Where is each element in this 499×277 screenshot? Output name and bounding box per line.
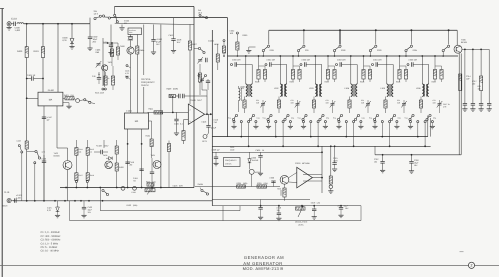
vertical rail x160.9 [160, 25, 162, 188]
capacitor C404 between dividers [27, 78, 31, 80]
small mark near page number [460, 251, 464, 253]
wire S403 to oscillator column [91, 102, 95, 105]
transistor T404 [151, 147, 153, 159]
feedback box line y210.6 [100, 210, 240, 212]
capacitor on x489.2 [487, 104, 491, 106]
svg-text:C415: C415 [174, 123, 180, 126]
svg-text:C425: C425 [256, 149, 262, 152]
svg-text:10R: 10R [230, 32, 234, 35]
resistor R407 [189, 25, 191, 42]
svg-text:FREQUENCY: FREQUENCY [141, 81, 155, 84]
stage L306 drops to buses [417, 123, 419, 137]
svg-text:T401: T401 [108, 61, 112, 64]
capacitor C405c [206, 58, 208, 62]
svg-text:SW2B: SW2B [198, 183, 204, 186]
stage L303 base resistor [313, 97, 315, 101]
wire U400 bottom pin A down [43, 106, 45, 201]
stage L302 wafer switch contacts [267, 114, 272, 120]
switch S302A [333, 45, 341, 52]
svg-text:R300: R300 [255, 81, 259, 84]
svg-text:C410a: C410a [208, 40, 215, 43]
lamp LP400 [74, 98, 76, 99]
vertical rail x330.8 [330, 146, 332, 176]
wire y154.8 left corner [374, 146, 376, 155]
modulation bus wire y205.7 [212, 205, 361, 207]
stage L306 base resistor [420, 97, 422, 101]
wire T402 collector up [67, 148, 69, 161]
jack circle J2 on audio bus [133, 186, 137, 190]
svg-text:30R: 30R [291, 101, 295, 104]
wire R400 column down [26, 58, 28, 142]
stage L302 contact grounds [268, 123, 270, 126]
capacitor C307 to ground [382, 155, 384, 162]
svg-text:C6: 16 - 40 MHz: C6: 16 - 40 MHz [41, 250, 60, 253]
capacitor C405b [207, 79, 209, 81]
thick drop at x340 [339, 30, 341, 44]
resistor R415 [87, 140, 89, 148]
svg-text:C428: C428 [131, 191, 135, 194]
wire column x104 down [103, 140, 105, 148]
svg-text:C329 1μF: C329 1μF [212, 149, 221, 152]
svg-text:R102: R102 [127, 204, 132, 207]
wire T404 to rail [160, 164, 162, 166]
svg-text:R305: R305 [237, 182, 242, 185]
svg-text:R302: R302 [325, 81, 329, 84]
resistor R421 at U400 right [63, 97, 65, 99]
drop x303.9 [303, 30, 305, 44]
IF stage transformer L301 [246, 82, 252, 97]
svg-text:C305 10R: C305 10R [409, 59, 418, 62]
transistor T400 [127, 47, 134, 54]
svg-text:2: 2 [471, 264, 473, 268]
stage L301 trimmer capacitor [260, 101, 266, 108]
svg-text:10k: 10k [374, 161, 377, 164]
capacitor C419 on pin C [125, 162, 129, 164]
transistor T403 [105, 161, 113, 169]
capacitor C306 [273, 181, 275, 187]
svg-text:C319: C319 [311, 202, 316, 205]
svg-text:C1: 1,0 - 400KHz: C1: 1,0 - 400KHz [41, 231, 61, 234]
svg-text:3: 3 [190, 120, 191, 123]
svg-text:R407: R407 [192, 43, 198, 46]
svg-text:R401: R401 [34, 50, 40, 53]
svg-text:C406: C406 [42, 158, 47, 161]
wire column x472.9 [472, 49, 474, 103]
switch S402 [35, 150, 41, 159]
svg-text:T400: T400 [120, 45, 125, 48]
svg-text:C309: C309 [230, 148, 234, 151]
svg-text:1k: 1k [262, 149, 264, 152]
svg-text:CHECK: CHECK [225, 163, 232, 166]
svg-text:2/0: 2/0 [130, 164, 133, 167]
svg-text:7/0: 7/0 [133, 180, 136, 183]
svg-text:25V: 25V [93, 41, 97, 44]
svg-text:50R: 50R [179, 184, 183, 187]
wires T301 to op-amp [289, 173, 297, 178]
stage L305 bias resistors [399, 56, 401, 70]
svg-text:C5: 5 - 16 MHz: C5: 5 - 16 MHz [41, 246, 59, 249]
op-amp output wires [312, 177, 322, 179]
resistor R424 at U401 right [149, 120, 152, 122]
stage L301 bias resistors [258, 56, 260, 70]
svg-text:30R: 30R [361, 101, 365, 104]
stage L305 drops to buses [381, 123, 383, 137]
stub and ground left of S301A [249, 46, 256, 48]
stage L303 trimmer capacitor [330, 101, 336, 108]
stage L301 contact grounds [233, 123, 235, 126]
contact circles on crystal column [126, 65, 128, 67]
svg-text:C310: C310 [338, 205, 343, 208]
svg-text:R301: R301 [290, 81, 294, 84]
resistor R313 stub [280, 190, 282, 196]
svg-text:FREQUENCY: FREQUENCY [225, 159, 237, 162]
resistor R416 mid rail [217, 44, 219, 54]
svg-text:(56k): (56k) [243, 182, 248, 185]
svg-text:+C408: +C408 [96, 145, 102, 148]
wire L400 bottom [238, 104, 240, 112]
wire y152.3 [212, 151, 322, 153]
electrolytic C407 on pin A [42, 117, 46, 119]
svg-text:C4a: C4a [362, 116, 365, 119]
stage L306 top feed wires [421, 56, 423, 82]
contact pins above audio bus [75, 180, 77, 182]
transistor T301 [280, 175, 289, 184]
svg-text:R424: R424 [146, 135, 151, 138]
svg-text:S303: S303 [377, 49, 381, 52]
frequency check box [224, 158, 241, 167]
svg-text:SET1: SET1 [202, 140, 208, 143]
wire column x103 [102, 38, 104, 86]
drop x375.8 [375, 30, 377, 44]
svg-text:CI400: CI400 [190, 99, 196, 102]
svg-text:GENERADOR AM: GENERADOR AM [244, 255, 284, 260]
page left edge line [1, 8, 3, 277]
wire crystal down [130, 40, 132, 47]
electrolytic C412 [153, 25, 155, 40]
svg-text:C404 1R: C404 1R [27, 74, 36, 77]
drop x448.6 [448, 30, 450, 44]
svg-text:R420: R420 [119, 166, 124, 169]
ground below CL18 [8, 26, 10, 28]
ground below zener [71, 44, 73, 47]
capacitor C410 to ground [121, 25, 123, 28]
stage L305 contact grounds [374, 123, 376, 126]
audio wire into stage [195, 186, 280, 188]
wire into U400 left pin [27, 97, 38, 99]
svg-text:C4: 1,0 - 5 MHz: C4: 1,0 - 5 MHz [41, 242, 59, 245]
switch SW1A second contact [102, 15, 110, 19]
svg-text:MA: MA [135, 120, 139, 123]
transistor T306 BF185 [454, 45, 462, 53]
svg-text:10k: 10k [478, 88, 481, 91]
svg-text:C301 10R: C301 10R [267, 59, 276, 62]
stage L304 drops to buses [345, 123, 347, 137]
svg-text:R305: R305 [432, 81, 436, 84]
resistor R423 [168, 141, 170, 144]
IF stage transformer L304 [351, 82, 357, 97]
resistor R325 10k [257, 185, 267, 188]
stage L302 bias resistors [292, 56, 294, 70]
vertical rail x194 [193, 7, 195, 188]
ground below C402 [89, 39, 91, 48]
stage L305 wafer switch contacts [373, 114, 378, 120]
capacitor C400 series input [11, 23, 13, 25]
svg-text:6,3V: 6,3V [63, 39, 68, 42]
capacitor C402 bypass [89, 24, 91, 37]
svg-text:CL19: CL19 [4, 191, 10, 194]
ground at U400 right lower pin [63, 102, 69, 104]
svg-text:S302: S302 [341, 49, 345, 52]
resistor R414 [75, 140, 77, 148]
svg-text:R409: R409 [167, 88, 173, 91]
bus wire y136.6 [212, 136, 427, 138]
svg-text:R417: R417 [79, 174, 83, 177]
ground bus wire y200.8 [13, 200, 213, 202]
wire column x481.1 with resistor R319 [480, 49, 482, 76]
bus right corner to T306 [456, 30, 458, 45]
jack circle J1 on audio bus [121, 186, 125, 190]
svg-text:4,7k: 4,7k [42, 151, 46, 154]
svg-text:T301: T301 [277, 188, 281, 191]
svg-text:30R: 30R [326, 101, 330, 104]
svg-text:R303: R303 [360, 81, 364, 84]
resistor R403 on rail x200 [199, 64, 201, 73]
IC U401 box [125, 113, 149, 129]
audio bus wire y187.5 [60, 187, 194, 189]
svg-text:741C: 741C [197, 99, 202, 102]
svg-text:C3a: C3a [326, 116, 329, 119]
svg-text:C40: C40 [92, 75, 95, 78]
feedback wire [176, 95, 179, 97]
test point SET1 circle [203, 135, 207, 139]
zener diode D400 6.3V [71, 24, 73, 39]
transistor T401 [102, 65, 108, 71]
svg-text:C1a: C1a [257, 116, 260, 119]
lower bus wire y24.5 [115, 23, 194, 24]
diode D300 [249, 152, 251, 158]
stage L301 contact row [233, 121, 235, 123]
wire bus tap x58 down to IC [57, 24, 59, 92]
bus wire y17.6 to center [110, 17, 227, 19]
stage L304 contact row [338, 121, 340, 123]
svg-text:C302 10R: C302 10R [302, 59, 311, 62]
resistor R406a lower [105, 72, 107, 76]
wire R404 down to U401 [136, 54, 138, 113]
stage L304 top feed wires [350, 56, 352, 82]
svg-text:100R: 100R [333, 160, 338, 163]
capacitor C418 on pin D [139, 169, 143, 171]
feedback box vertical x223 [222, 206, 224, 221]
svg-text:(56R): (56R) [173, 88, 178, 91]
stage L304 wafer switch contacts [337, 114, 342, 120]
supply wire right of T306 [462, 48, 489, 50]
svg-text:R404: R404 [140, 49, 146, 52]
svg-text:S304: S304 [413, 49, 417, 52]
op-amp output wire [205, 113, 213, 115]
wire drop from y6.5 [114, 7, 116, 15]
svg-text:1/35V: 1/35V [104, 145, 110, 148]
capacitor C407 [98, 72, 100, 78]
svg-text:R400: R400 [17, 50, 23, 53]
stage L303 drops to buses [310, 123, 312, 137]
svg-text:MC1456: MC1456 [302, 162, 310, 165]
capacitor C329 to ground [215, 152, 217, 157]
wire R407 down to op-amp [189, 50, 191, 104]
stage L306 contact grounds [410, 123, 412, 126]
op-amp CI400 741C [188, 104, 204, 124]
svg-text:S301: S301 [270, 49, 274, 52]
stage L302 contact row [267, 121, 269, 123]
resistor R406 [117, 43, 119, 47]
wire T402 emitter down [67, 170, 69, 201]
svg-text:BF185: BF185 [461, 41, 468, 44]
switch S305A [442, 45, 450, 52]
wire T400 emitter down to U401 [130, 54, 132, 63]
wire U400 bottom pin B down [56, 106, 58, 148]
stage L303 bias resistors [327, 56, 329, 70]
switch SW2A on audio bus [102, 189, 109, 195]
svg-text:BC30B: BC30B [54, 155, 61, 158]
capacitor C415 to ground [176, 112, 178, 119]
svg-text:C1401: C1401 [126, 110, 133, 113]
wire U401 bottom pin D [141, 129, 143, 188]
capacitor C413 100R 1KV [173, 18, 175, 39]
bus y136.6 right risers [427, 116, 429, 137]
crystal Y400 [130, 35, 132, 38]
svg-text:S1a: S1a [263, 116, 266, 119]
top feedback wire y6.5 [115, 6, 195, 8]
svg-text:R325: R325 [257, 182, 262, 185]
switch S400 on rail [198, 47, 205, 53]
svg-text:1k: 1k [90, 150, 92, 153]
meter M213 [249, 163, 251, 170]
svg-text:10k: 10k [79, 150, 82, 153]
svg-text:C6a: C6a [433, 116, 436, 119]
vertical rail x227.5 [227, 18, 229, 137]
svg-text:1KV: 1KV [177, 41, 181, 44]
stage bus wire y56 [228, 55, 459, 57]
svg-text:(94k): (94k) [133, 204, 138, 207]
svg-text:C5a: C5a [398, 116, 401, 119]
capacitor C317b [260, 200, 262, 208]
svg-text:1N4148: 1N4148 [252, 159, 259, 162]
stage L306 trimmer capacitor [437, 101, 443, 108]
IF stage transformer L302 [280, 82, 286, 97]
svg-text:1,5k: 1,5k [317, 202, 321, 205]
svg-text:CHECK: CHECK [141, 84, 149, 87]
svg-text:R411: R411 [149, 108, 155, 111]
inverting input wire [148, 111, 189, 113]
stage L301 drops to buses [240, 123, 242, 137]
svg-text:1A-2: 1A-2 [94, 12, 99, 15]
svg-text:C306: C306 [270, 177, 275, 180]
stage L303 wafer switch contacts [302, 114, 307, 120]
electrolytic C320 to ground [411, 155, 413, 162]
resistor R312 below T301 [284, 184, 286, 188]
svg-text:C416: C416 [202, 121, 208, 124]
svg-text:400: 400 [472, 83, 475, 86]
svg-text:MODULATION: MODULATION [295, 221, 308, 224]
svg-text:MOD. AM/FM-213 B: MOD. AM/FM-213 B [243, 266, 284, 271]
svg-text:C438: C438 [17, 140, 21, 143]
non-inverting input wire [184, 119, 189, 121]
svg-text:MA: MA [49, 99, 53, 102]
svg-text:S1a: S1a [405, 116, 408, 119]
svg-text:16V: 16V [345, 207, 349, 210]
trimmer C403 [197, 57, 203, 64]
svg-text:S1a: S1a [369, 116, 372, 119]
svg-text:35319: 35319 [2, 205, 7, 208]
svg-text:R421: R421 [64, 94, 70, 97]
IF stage transformer L306 [422, 82, 428, 97]
svg-text:R435: R435 [146, 181, 150, 184]
stage L304 base resistor [349, 97, 351, 101]
svg-text:2: 2 [190, 109, 191, 112]
resistor R402 on rail x26.7 [25, 141, 28, 149]
stage L305 top feed wires [386, 56, 388, 82]
contact below S402 [34, 162, 36, 164]
stage L303 contact row [302, 121, 304, 123]
trimmer C409b top [199, 77, 205, 84]
stage L305 base resistor [385, 97, 387, 101]
svg-text:C304 10R: C304 10R [373, 59, 382, 62]
vertical rail x212.5 [211, 30, 213, 206]
electrolytic C422 10uF [83, 201, 85, 208]
svg-text:L302: L302 [274, 87, 279, 90]
feedback box vertical x100.3 [99, 188, 101, 211]
wire meter down [251, 174, 253, 186]
potentiometer R303 modulation level [296, 207, 306, 210]
stage L306 contact row [409, 121, 411, 123]
switch S403 [84, 99, 91, 104]
svg-text:L304: L304 [345, 87, 350, 90]
resistor R404 [136, 35, 138, 47]
svg-text:L303: L303 [309, 87, 314, 90]
capacitor C427 at CL19 [11, 200, 14, 202]
feedback box line y220.6 [70, 220, 361, 222]
stage L301 top feed wires [245, 56, 247, 82]
wire R401 column down to IC [42, 58, 44, 93]
crystal oscillator box [128, 28, 142, 35]
diode D409 1N4148 [106, 157, 109, 159]
svg-text:C426: C426 [173, 184, 179, 187]
resistor R435 above bus [147, 183, 154, 186]
capacitor C423 below T404 [150, 172, 154, 174]
band bus wire y30.3 [269, 29, 457, 31]
svg-text:CI300: CI300 [295, 162, 301, 165]
contact circles below T401 [104, 71, 106, 87]
wire U401 bottom pin C [127, 129, 129, 188]
svg-text:R304: R304 [396, 81, 400, 84]
contact chain x237.4 [236, 32, 238, 34]
resistor R418 [87, 155, 89, 173]
resistor R417 [75, 155, 77, 173]
bus left corner drop [268, 30, 270, 44]
svg-text:CL18: CL18 [11, 17, 17, 20]
resistor R420 [116, 140, 118, 146]
svg-text:(1k): (1k) [71, 94, 75, 97]
switch contact drops to y56 bus [262, 52, 264, 56]
svg-text:L306: L306 [416, 87, 421, 90]
switch S301A [262, 45, 269, 52]
diode D410 to ground [57, 201, 59, 207]
vertical rail x322 [321, 146, 323, 193]
drop x411.4 [410, 30, 412, 44]
svg-text:S1a: S1a [228, 116, 231, 119]
connector CL18 [7, 22, 11, 26]
op-amp CI300 MC1456 [297, 167, 313, 188]
main bus wire y24 [24, 23, 90, 25]
